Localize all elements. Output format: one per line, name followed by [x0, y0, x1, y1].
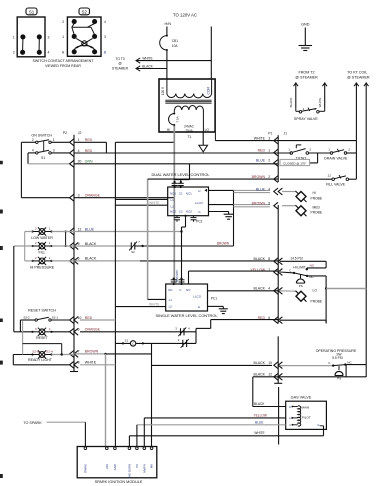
svg-text:2: 2: [35, 241, 37, 245]
svg-text:NO: NO: [186, 288, 191, 292]
svg-text:LO: LO: [205, 128, 210, 132]
svg-text:1: 1: [49, 241, 51, 245]
svg-text:4: 4: [268, 187, 270, 191]
svg-text:WHITE: WHITE: [85, 361, 97, 365]
svg-text:@ STEAMER: @ STEAMER: [347, 76, 370, 80]
svg-text:H/N: H/N: [165, 22, 172, 26]
svg-text:24V: 24V: [105, 464, 109, 469]
svg-text:12: 12: [78, 227, 82, 231]
svg-text:BLACK: BLACK: [85, 257, 97, 261]
svg-text:DUAL WATER LEVEL CONTROL: DUAL WATER LEVEL CONTROL: [151, 172, 210, 177]
svg-text:ORANGE: ORANGE: [85, 194, 101, 198]
svg-text:TO 120V AC: TO 120V AC: [173, 12, 197, 17]
svg-text:WHITE: WHITE: [149, 302, 159, 306]
svg-text:10: 10: [268, 361, 272, 365]
svg-text:L1: L1: [169, 298, 173, 302]
svg-text:BLACK: BLACK: [254, 287, 266, 291]
svg-text:1: 1: [78, 138, 80, 142]
svg-text:LLCO: LLCO: [195, 201, 204, 205]
svg-text:NO: NO: [310, 264, 315, 268]
svg-text:NO2: NO2: [186, 209, 193, 213]
svg-text:BROWN: BROWN: [217, 241, 230, 245]
svg-text:T1: T1: [187, 135, 191, 139]
svg-text:HI: HI: [167, 128, 170, 132]
svg-text:LO: LO: [313, 289, 318, 293]
svg-text:S2: S2: [131, 250, 135, 254]
svg-text:PS: PS: [337, 376, 341, 380]
svg-text:BLACK: BLACK: [254, 373, 266, 377]
svg-text:BROWN: BROWN: [252, 175, 266, 179]
svg-text:GND: GND: [301, 22, 310, 26]
svg-text:GRN: GRN: [85, 160, 93, 164]
svg-text:BLUE: BLUE: [85, 227, 95, 231]
svg-text:FILL VALVE: FILL VALVE: [326, 183, 346, 187]
svg-text:2: 2: [268, 175, 270, 179]
svg-text:PV: PV: [135, 464, 139, 468]
svg-text:S1: S1: [125, 339, 129, 343]
svg-text:S2: S2: [82, 9, 88, 14]
svg-text:DRAIN VALVE: DRAIN VALVE: [324, 156, 348, 160]
svg-text:SPARK: SPARK: [84, 464, 88, 473]
svg-text:H: H: [198, 189, 200, 193]
svg-text:ON SWITCH: ON SWITCH: [31, 134, 52, 138]
svg-text:MAIN: MAIN: [302, 405, 310, 409]
svg-text:3: 3: [104, 35, 106, 39]
svg-text:1: 1: [53, 138, 55, 142]
svg-text:10: 10: [78, 316, 82, 320]
svg-text:CB1: CB1: [172, 39, 178, 43]
svg-text:1: 1: [303, 107, 305, 111]
svg-text:WHITE: WHITE: [254, 431, 264, 435]
svg-text:RESET: RESET: [36, 336, 49, 340]
svg-text:BLUE: BLUE: [255, 420, 263, 424]
svg-text:2: 2: [310, 147, 312, 151]
svg-text:S2-2: S2-2: [23, 315, 30, 319]
svg-text:BLACK: BLACK: [289, 98, 293, 108]
svg-text:HI-LIMIT: HI-LIMIT: [293, 266, 305, 270]
svg-text:4: 4: [78, 149, 80, 153]
svg-text:120 V: 120 V: [161, 86, 165, 95]
svg-text:CLOSED @ 170°: CLOSED @ 170°: [283, 161, 307, 165]
svg-text:COM: COM: [206, 87, 210, 95]
svg-text:3: 3: [48, 35, 50, 39]
svg-text:S2-B: S2-B: [32, 350, 39, 354]
svg-text:L2: L2: [171, 204, 175, 208]
svg-text:10A: 10A: [172, 44, 179, 48]
svg-text:J1: J1: [283, 131, 287, 135]
svg-text:RESET SWITCH: RESET SWITCH: [28, 309, 56, 313]
svg-text:SINGLE WATER LEVEL CONTROL: SINGLE WATER LEVEL CONTROL: [155, 313, 218, 318]
svg-text:NC2: NC2: [170, 209, 176, 213]
svg-text:TO SPARK: TO SPARK: [23, 421, 42, 425]
svg-text:4: 4: [48, 51, 50, 55]
svg-text:7: 7: [78, 350, 80, 354]
svg-text:4: 4: [104, 20, 106, 24]
svg-text:2: 2: [32, 138, 34, 142]
svg-text:PS: PS: [299, 284, 303, 288]
svg-text:VIEWED FROM REAR: VIEWED FROM REAR: [45, 64, 81, 68]
svg-text:WHITE: WHITE: [318, 98, 322, 108]
svg-text:P1: P1: [268, 131, 272, 135]
svg-text:BLACK: BLACK: [85, 242, 97, 246]
svg-text:SPRAY VALVE: SPRAY VALVE: [294, 117, 319, 121]
svg-text:24VAC: 24VAC: [184, 124, 195, 128]
svg-text:S2-A: S2-A: [46, 350, 54, 354]
svg-text:C: C: [132, 342, 134, 346]
svg-text:MED: MED: [313, 205, 321, 209]
svg-text:BROWN: BROWN: [85, 350, 99, 354]
svg-text:S2-1: S2-1: [52, 315, 59, 319]
svg-text:STEAMER: STEAMER: [112, 67, 129, 71]
svg-text:8: 8: [268, 257, 270, 261]
svg-text:L1: L1: [171, 198, 175, 202]
svg-text:1: 1: [13, 35, 15, 39]
svg-text:L2: L2: [169, 304, 173, 308]
svg-text:MV: MV: [150, 464, 154, 468]
svg-text:TO T3: TO T3: [115, 57, 124, 61]
svg-text:PC1: PC1: [211, 296, 217, 300]
svg-text:BROWN: BROWN: [252, 202, 266, 206]
svg-text:FROM T2: FROM T2: [298, 70, 314, 74]
svg-text:1: 1: [328, 147, 330, 151]
svg-text:WHITE: WHITE: [142, 56, 152, 60]
svg-text:RED: RED: [85, 316, 93, 320]
svg-text:RED: RED: [85, 138, 93, 142]
svg-text:PROBE: PROBE: [311, 196, 323, 200]
svg-text:BLACK: BLACK: [142, 64, 153, 68]
svg-text:3: 3: [78, 194, 80, 198]
svg-text:14.5 PSI: 14.5 PSI: [290, 256, 302, 260]
svg-text:5: 5: [268, 202, 270, 206]
svg-text:RED: RED: [258, 148, 266, 152]
svg-text:2: 2: [348, 147, 350, 151]
svg-text:6: 6: [78, 328, 80, 332]
svg-text:S1: S1: [29, 9, 35, 14]
svg-text:2: 2: [35, 227, 37, 231]
svg-text:RED: RED: [85, 149, 93, 153]
svg-text:5: 5: [78, 257, 80, 261]
svg-text:2: 2: [314, 107, 316, 111]
svg-text:20: 20: [78, 160, 82, 164]
svg-text:LLCO: LLCO: [193, 295, 202, 299]
svg-text:FILL: FILL: [38, 250, 45, 254]
svg-text:2: 2: [268, 159, 270, 163]
svg-text:LOW WATER: LOW WATER: [31, 236, 53, 240]
svg-text:3: 3: [35, 327, 37, 331]
svg-text:4: 4: [268, 287, 270, 291]
svg-text:BLACK: BLACK: [254, 257, 266, 261]
svg-text:P2: P2: [63, 131, 67, 135]
svg-text:NO1: NO1: [170, 192, 177, 196]
svg-text:2: 2: [62, 20, 64, 24]
svg-text:12: 12: [328, 174, 332, 178]
svg-text:4: 4: [49, 327, 51, 331]
svg-text:12: 12: [268, 373, 272, 377]
svg-text:BLUE: BLUE: [256, 159, 266, 163]
svg-text:YELLOW: YELLOW: [254, 413, 267, 417]
svg-text:J2: J2: [78, 131, 82, 135]
svg-text:8: 8: [78, 361, 80, 365]
svg-text:S1: S1: [41, 156, 45, 160]
svg-text:3: 3: [53, 149, 55, 153]
svg-text:1: 1: [49, 256, 51, 260]
svg-text:PROBE: PROBE: [311, 300, 323, 304]
svg-text:GND: GND: [113, 464, 117, 470]
svg-text:C1: C1: [179, 192, 183, 196]
svg-text:1: 1: [49, 227, 51, 231]
svg-text:1: 1: [62, 35, 64, 39]
svg-text:2: 2: [35, 256, 37, 260]
svg-text:7.5A: 7.5A: [175, 116, 179, 122]
svg-text:C2: C2: [179, 209, 183, 213]
svg-text:SWITCH CONTACT ARRANGEMENT: SWITCH CONTACT ARRANGEMENT: [33, 59, 95, 63]
svg-text:1: 1: [268, 148, 270, 152]
svg-text:2: 2: [13, 51, 15, 55]
svg-text:BLACK: BLACK: [254, 361, 266, 365]
svg-text:IND BURN: IND BURN: [128, 464, 132, 478]
svg-text:WHITE: WHITE: [149, 201, 159, 205]
svg-text:SPARK IGNITION MODULE: SPARK IGNITION MODULE: [95, 480, 143, 484]
svg-text:PROBE: PROBE: [311, 211, 323, 215]
svg-text:1: 1: [288, 147, 290, 151]
svg-text:NC1: NC1: [186, 192, 192, 196]
svg-text:4: 4: [32, 149, 34, 153]
svg-text:75VA: 75VA: [185, 129, 193, 133]
svg-text:9: 9: [78, 242, 80, 246]
svg-text:HI PRESSURE: HI PRESSURE: [30, 265, 55, 269]
svg-text:TO KT COIL: TO KT COIL: [347, 70, 367, 74]
svg-text:READY LIGHT: READY LIGHT: [28, 358, 53, 362]
svg-text:HI: HI: [313, 191, 316, 195]
svg-text:3: 3: [268, 136, 270, 140]
svg-text:@ STEAMER: @ STEAMER: [295, 76, 318, 80]
svg-text:PILOT: PILOT: [302, 415, 311, 419]
svg-text:GAS VALVE: GAS VALVE: [291, 396, 312, 400]
svg-text:BLUE: BLUE: [256, 187, 266, 191]
svg-text:BLACK: BLACK: [254, 402, 265, 406]
svg-text:9.5 PSI: 9.5 PSI: [332, 356, 343, 360]
svg-text:WHITE: WHITE: [254, 136, 266, 140]
svg-text:PC2: PC2: [196, 220, 202, 224]
svg-text:ORANGE: ORANGE: [85, 328, 101, 332]
svg-text:MV/PV: MV/PV: [142, 464, 146, 473]
